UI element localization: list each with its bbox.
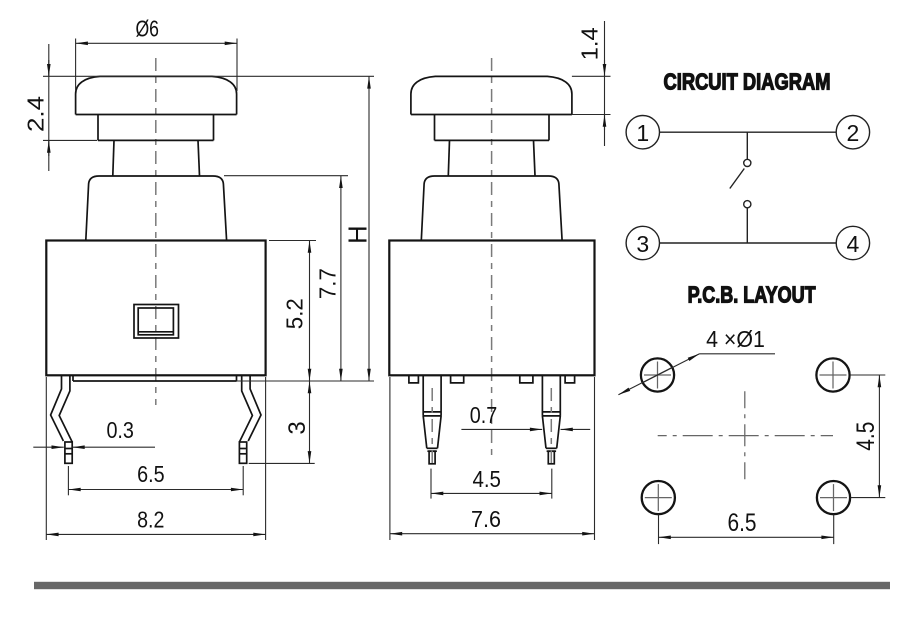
svg-text:6.5: 6.5 [137, 461, 165, 487]
dimension 5.2 [269, 241, 316, 382]
svg-text:2.4: 2.4 [22, 96, 48, 132]
svg-text:2: 2 [847, 120, 860, 146]
svg-text:4: 4 [847, 231, 860, 257]
centerline front view [155, 58, 157, 405]
front view right leg [239, 375, 261, 463]
svg-text:3: 3 [636, 231, 649, 257]
svg-text:CIRCUIT DIAGRAM: CIRCUIT DIAGRAM [664, 69, 831, 95]
wire switch top stub [746, 132, 748, 159]
svg-text:4 ×Ø1: 4 ×Ø1 [706, 326, 765, 352]
front view window [134, 305, 179, 339]
side view stem [448, 140, 535, 175]
svg-text:H: H [345, 225, 373, 243]
dimension 0.7 [461, 402, 590, 429]
dimension 6.5 pcb [659, 509, 834, 544]
front view base strip [73, 375, 237, 381]
side view body [389, 241, 594, 376]
svg-text:4.5: 4.5 [852, 422, 880, 451]
front view left leg [51, 375, 73, 463]
svg-text:8.2: 8.2 [137, 507, 164, 533]
dimension 4.5 pcb [850, 375, 885, 498]
pcb center mark [658, 391, 833, 479]
hole top-left [641, 358, 674, 391]
pin 2 circle [836, 116, 869, 149]
dimension 7.7 [224, 176, 348, 381]
svg-text:6.5: 6.5 [728, 509, 757, 537]
pin 4 circle [836, 226, 869, 259]
side view left pin [423, 375, 441, 464]
hole bottom-right [817, 481, 850, 514]
wire switch bottom stub [746, 208, 748, 243]
footer bar [34, 582, 890, 589]
svg-text:P.C.B. LAYOUT: P.C.B. LAYOUT [688, 281, 816, 307]
hole bottom-left [642, 481, 675, 514]
switch blade [730, 169, 745, 189]
svg-text:5.2: 5.2 [281, 298, 307, 329]
svg-text:0.3: 0.3 [106, 417, 134, 443]
side view right pin [542, 375, 560, 464]
side view left pin tabs [409, 375, 464, 383]
switch contact top [744, 159, 751, 166]
svg-text:4.5: 4.5 [472, 466, 501, 492]
wire top [660, 131, 837, 133]
dimension 8.2 [46, 377, 265, 540]
dimension 7.6 [390, 377, 595, 540]
dimension 3 [249, 381, 315, 463]
front view stem [113, 140, 200, 175]
front view cap [76, 76, 237, 114]
label 4xØ1 leader [618, 326, 775, 395]
side view flange [421, 176, 562, 241]
svg-text:Ø6: Ø6 [135, 16, 159, 42]
svg-text:1: 1 [636, 120, 649, 146]
hole top-right [816, 358, 849, 391]
wire bottom [660, 242, 837, 244]
pin 3 circle [626, 226, 659, 259]
switch contact bottom [744, 201, 751, 208]
svg-text:0.7: 0.7 [470, 402, 498, 428]
dimension 1.4 [572, 21, 611, 146]
dimension 2.4 [22, 44, 374, 171]
svg-text:7.7: 7.7 [315, 268, 341, 299]
dimension 4.5 side [431, 466, 552, 499]
dimension 6.5 front [68, 461, 243, 495]
dimension Ø6 [76, 16, 237, 92]
svg-text:7.6: 7.6 [471, 506, 501, 532]
svg-text:1.4: 1.4 [577, 27, 603, 60]
shared bottom extension line [237, 380, 375, 382]
front view body [46, 241, 265, 376]
side view right pin tabs [520, 375, 575, 383]
dimension 0.3 [33, 417, 155, 447]
title circuit diagram [664, 69, 831, 95]
side view neck [435, 115, 550, 141]
centerline side view [491, 58, 493, 455]
svg-text:3: 3 [284, 421, 311, 434]
pin centerlines [432, 388, 551, 466]
front view neck [98, 115, 214, 141]
front view flange [86, 176, 227, 241]
pin 1 circle [626, 116, 659, 149]
title pcb layout [688, 281, 816, 307]
side view cap [411, 76, 572, 114]
dimension H [345, 76, 373, 381]
